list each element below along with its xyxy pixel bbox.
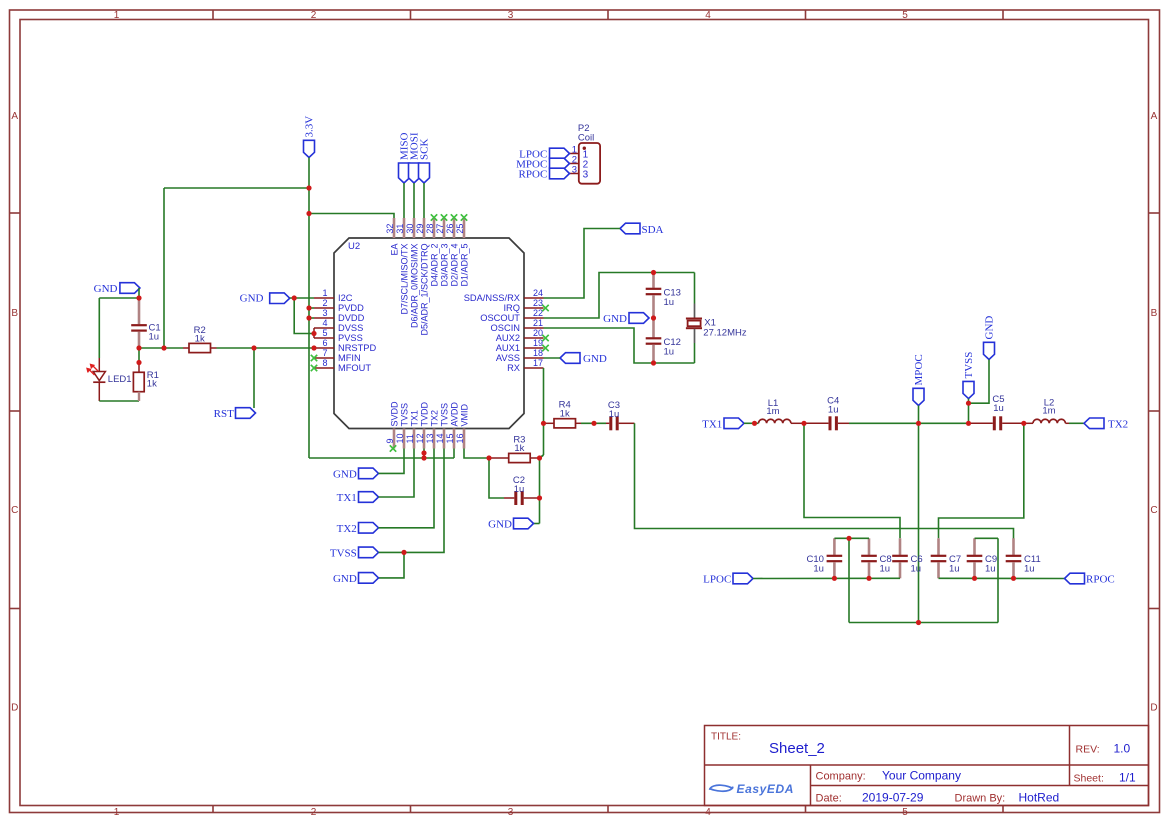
wire: [464, 449, 489, 459]
svg-text:28: 28: [425, 224, 435, 234]
svg-text:TX1: TX1: [409, 410, 419, 427]
svg-text:PVSS: PVSS: [338, 333, 363, 343]
svg-text:Drawn By:: Drawn By:: [955, 792, 1006, 804]
svg-text:TX1: TX1: [337, 492, 357, 504]
svg-text:1u: 1u: [985, 563, 996, 574]
svg-text:AUX2: AUX2: [496, 333, 520, 343]
svg-text:5: 5: [902, 807, 908, 818]
svg-text:TVSS: TVSS: [439, 403, 449, 427]
svg-text:TITLE:: TITLE:: [711, 732, 741, 743]
svg-text:TVSS: TVSS: [963, 352, 975, 379]
net flag TX2: [1084, 418, 1128, 430]
svg-text:A: A: [1151, 111, 1158, 122]
net flag TVSS (U2 pin14): [330, 547, 379, 559]
svg-text:1k: 1k: [195, 334, 205, 345]
no-connect X pin 19: [542, 345, 548, 351]
svg-text:27: 27: [435, 224, 445, 234]
svg-text:1u: 1u: [993, 403, 1004, 414]
wire: [403, 183, 405, 218]
wire: [379, 449, 445, 553]
node junction: [251, 345, 256, 350]
svg-text:NRSTPD: NRSTPD: [338, 343, 377, 353]
wire: [804, 423, 900, 538]
wire: [1069, 422, 1084, 424]
svg-text:Sheet_2: Sheet_2: [769, 740, 825, 757]
wire: [544, 357, 561, 359]
svg-text:PVDD: PVDD: [338, 303, 364, 313]
svg-text:Your Company: Your Company: [882, 769, 961, 783]
svg-text:17: 17: [533, 358, 543, 368]
svg-text:3: 3: [322, 308, 327, 318]
wire: [997, 538, 999, 622]
net flag SDA: [620, 223, 664, 236]
resistor R4: [544, 400, 582, 428]
node junction: [136, 345, 141, 350]
svg-text:MFIN: MFIN: [338, 353, 361, 363]
svg-text:1u: 1u: [828, 405, 839, 416]
wire: [848, 538, 850, 622]
wire: [379, 449, 405, 474]
wire: [753, 577, 900, 579]
no-connect X pin 9: [390, 445, 396, 451]
svg-text:D1/ADR_5: D1/ADR_5: [459, 244, 469, 287]
wire: [379, 552, 405, 578]
svg-text:1k: 1k: [147, 379, 157, 390]
svg-text:1u: 1u: [911, 563, 922, 574]
wire: [939, 423, 1024, 538]
svg-text:12: 12: [415, 433, 425, 443]
IC U2: [314, 218, 544, 449]
svg-text:1: 1: [114, 807, 120, 818]
svg-text:19: 19: [533, 338, 543, 348]
svg-text:SDA: SDA: [642, 224, 664, 236]
net flag TX2 (U2 pin13): [337, 523, 379, 535]
svg-text:RST: RST: [214, 408, 234, 420]
svg-text:TVDD: TVDD: [419, 402, 429, 427]
wire: [694, 343, 696, 363]
capacitor C11: [1006, 538, 1041, 578]
no-connect X pin 26: [451, 214, 457, 220]
svg-text:1u: 1u: [880, 563, 891, 574]
net flag TX1 (U2 pin11): [337, 492, 379, 504]
svg-text:Sheet:: Sheet:: [1074, 773, 1104, 785]
net flag SCK: [418, 139, 430, 183]
wire: [308, 158, 310, 459]
svg-text:SDA/NSS/RX: SDA/NSS/RX: [464, 293, 520, 303]
svg-text:D5/ADR_1/SCK/DTRQ: D5/ADR_1/SCK/DTRQ: [419, 244, 429, 336]
svg-text:TX2: TX2: [337, 523, 357, 535]
svg-text:DVDD: DVDD: [338, 313, 365, 323]
crystal X1: [686, 304, 747, 344]
wire: [744, 422, 759, 424]
net flag MOSI: [408, 132, 420, 183]
ground flag GND (C1 top): [94, 283, 140, 295]
svg-text:10: 10: [395, 433, 405, 443]
wire: [379, 449, 435, 528]
node junction: [306, 185, 311, 190]
svg-text:18: 18: [533, 348, 543, 358]
capacitor C2: [504, 475, 540, 505]
capacitor C6: [892, 538, 922, 578]
svg-text:9: 9: [385, 438, 395, 443]
net flag RST: [214, 408, 256, 420]
connector P2 Coil: [570, 123, 601, 184]
svg-text:6: 6: [322, 338, 327, 348]
wire: [379, 449, 415, 498]
svg-text:LED1: LED1: [108, 374, 132, 385]
svg-text:TVSS: TVSS: [330, 547, 357, 559]
capacitor C8: [861, 538, 891, 578]
node junction: [136, 295, 141, 300]
svg-text:21: 21: [533, 318, 543, 328]
wire: [309, 317, 314, 319]
wire: [290, 297, 314, 299]
svg-text:GND: GND: [603, 313, 627, 325]
net flag RPOC: [1065, 573, 1115, 585]
resistor R1: [133, 363, 159, 402]
svg-text:GND: GND: [488, 519, 512, 531]
svg-text:TX1: TX1: [702, 418, 722, 430]
wire: [540, 455, 544, 458]
svg-text:3: 3: [508, 807, 514, 818]
wire: [309, 457, 454, 459]
svg-text:D: D: [11, 703, 18, 714]
power flag 3.3V: [304, 116, 316, 158]
no-connect X pin 25: [461, 214, 467, 220]
no-connect X pin 20: [542, 335, 548, 341]
ground flag GND (C12/C13 mid): [603, 313, 649, 325]
power flag GND (TVSS net): [983, 316, 995, 360]
svg-text:D4/ADR_2: D4/ADR_2: [429, 244, 439, 287]
wire: [138, 288, 140, 298]
svg-text:27.12MHz: 27.12MHz: [703, 328, 747, 339]
node junction: [846, 536, 851, 541]
svg-text:IRQ: IRQ: [503, 303, 520, 313]
svg-text:5: 5: [322, 328, 327, 338]
capacitor C7: [931, 538, 961, 578]
node junction: [136, 360, 141, 365]
svg-text:26: 26: [445, 224, 455, 234]
svg-text:2: 2: [311, 10, 317, 21]
net flag RPOC (P2 pin3): [519, 168, 570, 180]
svg-text:15: 15: [445, 433, 455, 443]
svg-text:2: 2: [322, 298, 327, 308]
wire: [423, 183, 425, 218]
ground flag GND (U2 pin1): [240, 292, 290, 304]
node junction pins 2-3: [306, 305, 311, 320]
svg-text:C: C: [11, 505, 18, 516]
node junction: [651, 360, 656, 365]
wire: [581, 422, 606, 424]
capacitor C13: [646, 273, 681, 319]
svg-text:2: 2: [311, 807, 317, 818]
wire: [138, 348, 140, 363]
wire: [968, 399, 970, 424]
wire: [98, 298, 100, 358]
svg-text:RPOC: RPOC: [519, 169, 548, 181]
svg-text:4: 4: [322, 318, 327, 328]
svg-text:31: 31: [395, 224, 405, 234]
wire: [163, 188, 165, 348]
svg-text:1: 1: [322, 288, 327, 298]
svg-text:1u: 1u: [1024, 563, 1035, 574]
svg-text:3: 3: [583, 170, 589, 181]
svg-text:B: B: [11, 308, 18, 319]
svg-text:Company:: Company:: [816, 771, 866, 783]
svg-text:LPOC: LPOC: [703, 574, 731, 586]
svg-text:D: D: [1150, 703, 1157, 714]
node junction: [311, 331, 316, 336]
svg-text:32: 32: [385, 224, 395, 234]
wire: [99, 400, 139, 402]
net flag MPOC: [913, 354, 925, 405]
wire pin4-5 tie: [313, 328, 315, 338]
svg-text:2019-07-29: 2019-07-29: [862, 790, 924, 804]
wire: [534, 523, 540, 525]
svg-text:D7/SCL/MISO/TX: D7/SCL/MISO/TX: [399, 244, 409, 315]
svg-text:D3/ADR_3: D3/ADR_3: [439, 244, 449, 287]
capacitor C12: [646, 318, 681, 363]
node junction: [651, 270, 656, 275]
svg-text:29: 29: [415, 224, 425, 234]
svg-text:GND: GND: [94, 283, 118, 295]
wire: [544, 229, 621, 299]
capacitor C3: [606, 400, 635, 430]
inductor L1: [759, 398, 805, 423]
svg-text:AVDD: AVDD: [449, 402, 459, 427]
wire: [309, 214, 394, 219]
node junction: [966, 421, 971, 426]
no-connect X pin 23: [542, 305, 548, 311]
svg-text:1k: 1k: [514, 443, 524, 454]
LED LED1: [87, 358, 132, 401]
svg-text:8: 8: [322, 358, 327, 368]
svg-text:Date:: Date:: [816, 792, 842, 804]
svg-text:22: 22: [533, 308, 543, 318]
wire: [413, 183, 415, 218]
ground flag GND (TVSS): [333, 573, 379, 585]
svg-text:1m: 1m: [766, 406, 779, 417]
svg-text:TX2: TX2: [429, 410, 439, 427]
svg-text:13: 13: [425, 433, 435, 443]
node junction: [537, 455, 542, 460]
svg-text:1u: 1u: [514, 484, 525, 495]
svg-text:1u: 1u: [949, 563, 960, 574]
svg-text:14: 14: [435, 433, 445, 443]
no-connect X pin 8: [311, 365, 317, 371]
wire: [849, 622, 998, 624]
no-connect X pin 28: [431, 214, 437, 220]
svg-text:GND: GND: [583, 353, 607, 365]
node junction: [292, 295, 297, 300]
svg-text:DVSS: DVSS: [338, 323, 363, 333]
resistor R3: [489, 434, 540, 462]
node junction: [401, 550, 406, 555]
svg-text:1: 1: [114, 10, 120, 21]
node junction: [591, 421, 596, 426]
node junction: [161, 345, 166, 350]
svg-text:11: 11: [405, 434, 415, 443]
wire: [543, 368, 545, 455]
svg-text:23: 23: [533, 298, 543, 308]
wire: [423, 449, 425, 459]
svg-text:3: 3: [572, 165, 577, 176]
svg-text:RX: RX: [507, 363, 520, 373]
wire: [694, 273, 696, 304]
svg-text:EA: EA: [389, 244, 399, 256]
inductor L2: [1024, 397, 1069, 423]
wire: [253, 348, 255, 408]
svg-text:1k: 1k: [560, 408, 570, 419]
wire: [164, 187, 309, 189]
node junction: [972, 576, 1016, 581]
net flag TX1: [702, 418, 744, 430]
capacitor C1: [131, 298, 160, 348]
node junction: [752, 421, 757, 426]
net flag LPOC (P2 pin1): [519, 148, 569, 160]
svg-text:20: 20: [533, 328, 543, 338]
svg-text:RPOC: RPOC: [1086, 574, 1115, 586]
wire: [918, 406, 920, 424]
node junction: [421, 450, 426, 460]
capacitor C4: [804, 395, 849, 430]
svg-text:C: C: [1150, 505, 1157, 516]
svg-text:3.3V: 3.3V: [304, 116, 316, 138]
node junction: [916, 421, 921, 426]
svg-text:1u: 1u: [813, 563, 824, 574]
svg-text:1u: 1u: [664, 297, 675, 308]
svg-text:Coil: Coil: [578, 132, 594, 143]
svg-text:EasyEDA: EasyEDA: [737, 782, 795, 796]
svg-text:1u: 1u: [149, 331, 160, 342]
svg-text:OSCIN: OSCIN: [491, 323, 520, 333]
svg-text:REV:: REV:: [1076, 744, 1100, 756]
svg-text:5: 5: [902, 10, 908, 21]
svg-text:D2/ADR_4: D2/ADR_4: [449, 244, 459, 287]
svg-text:1u: 1u: [664, 346, 675, 357]
node junction: [306, 211, 311, 216]
svg-text:24: 24: [533, 288, 543, 298]
svg-text:3: 3: [508, 10, 514, 21]
svg-text:MPOC: MPOC: [913, 354, 925, 385]
svg-text:MFOUT: MFOUT: [338, 363, 371, 373]
ground flag GND (U2 pin10): [333, 468, 379, 480]
svg-text:A: A: [11, 111, 18, 122]
svg-text:4: 4: [705, 807, 711, 818]
svg-text:U2: U2: [348, 241, 360, 252]
net flag TVSS: [963, 352, 975, 399]
wire: [453, 449, 455, 459]
net flag LPOC: [703, 573, 753, 585]
svg-text:D6/ADR_0/MOSI/MX: D6/ADR_0/MOSI/MX: [409, 244, 419, 329]
svg-text:GND: GND: [240, 292, 264, 304]
node junction: [801, 421, 806, 426]
resistor R2: [183, 325, 217, 353]
svg-text:GND: GND: [333, 468, 357, 480]
node junction: [966, 401, 971, 406]
wire: [635, 423, 1014, 538]
node junction: [1021, 421, 1026, 426]
ground flag GND (C2): [488, 518, 533, 530]
node junction: [651, 315, 656, 320]
svg-text:AVSS: AVSS: [496, 353, 520, 363]
wire: [939, 577, 1065, 579]
wire: [139, 347, 183, 349]
wire: [544, 328, 695, 363]
svg-text:7: 7: [322, 348, 327, 358]
svg-text:1u: 1u: [609, 409, 620, 420]
svg-text:1/1: 1/1: [1119, 770, 1136, 784]
svg-text:HotRed: HotRed: [1019, 790, 1060, 804]
svg-text:1m: 1m: [1042, 405, 1055, 416]
svg-text:TX2: TX2: [1108, 418, 1128, 430]
no-connect X pin 27: [441, 214, 447, 220]
ground flag GND (U2 pin18): [560, 353, 607, 365]
svg-text:1.0: 1.0: [1114, 742, 1131, 756]
svg-text:VMID: VMID: [459, 403, 469, 426]
svg-text:GND: GND: [983, 316, 995, 340]
svg-text:25: 25: [455, 224, 465, 234]
wire: [217, 347, 315, 349]
svg-text:OSCOUT: OSCOUT: [480, 313, 520, 323]
svg-text:4: 4: [705, 10, 711, 21]
wire: [834, 537, 869, 539]
node junction: [832, 576, 872, 581]
svg-text:I2C: I2C: [338, 293, 353, 303]
wire: [849, 422, 969, 424]
wire: [544, 273, 695, 319]
node junction: [916, 620, 921, 625]
wire: [539, 458, 541, 524]
wire: [309, 307, 314, 309]
svg-text:GND: GND: [333, 573, 357, 585]
net flag MPOC (P2 pin2): [516, 158, 569, 170]
node junction: [541, 421, 546, 426]
node junction: [486, 455, 491, 460]
svg-text:B: B: [1151, 308, 1158, 319]
net flag MISO: [398, 132, 410, 183]
wire: [975, 537, 999, 539]
svg-text:AUX1: AUX1: [496, 343, 520, 353]
svg-text:SVDD: SVDD: [389, 401, 399, 427]
no-connect X pin 7: [311, 355, 317, 361]
svg-text:30: 30: [405, 224, 415, 234]
node junction: [537, 495, 542, 500]
svg-text:TVSS: TVSS: [399, 403, 409, 427]
svg-text:16: 16: [455, 433, 465, 443]
wire: [294, 298, 314, 334]
capacitor C5: [969, 394, 1024, 431]
capacitor C10: [806, 538, 842, 578]
capacitor C9: [967, 538, 997, 578]
wire: [969, 360, 990, 404]
node junction: [311, 345, 316, 350]
wire: [99, 297, 139, 299]
wire: [489, 458, 504, 498]
svg-text:SCK: SCK: [418, 139, 430, 160]
wire: [918, 423, 920, 622]
